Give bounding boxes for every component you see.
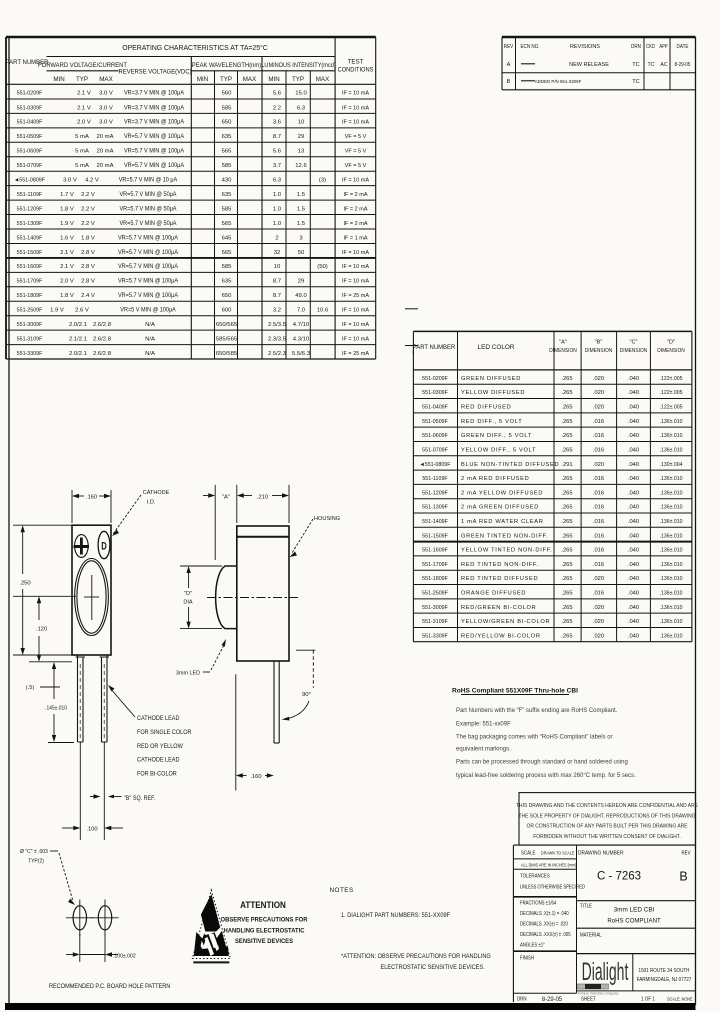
svg-text:12.6: 12.6 — [295, 163, 307, 169]
svg-text:IF = 10 mA: IF = 10 mA — [342, 322, 369, 328]
dim .210 — [288, 485, 290, 523]
svg-text:RED DIFF., 5 VOLT: RED DIFF., 5 VOLT — [461, 419, 522, 425]
svg-text:VR=5 V MIN @ 100μA: VR=5 V MIN @ 100μA — [120, 307, 176, 313]
centerline — [207, 597, 298, 599]
svg-text:565: 565 — [222, 149, 233, 155]
svg-text:20 mA: 20 mA — [96, 134, 113, 140]
svg-text:.265: .265 — [561, 576, 572, 582]
svg-text:585: 585 — [222, 206, 233, 212]
svg-text:.040: .040 — [628, 633, 639, 639]
svg-text:.265: .265 — [561, 562, 572, 568]
svg-text:IF = 10 mA: IF = 10 mA — [342, 336, 369, 342]
svg-text:TYP: TYP — [292, 76, 304, 83]
svg-text:equivalent markings.: equivalent markings. — [456, 745, 511, 752]
svg-text:.020: .020 — [593, 633, 604, 639]
svg-text:REVERSE VOLTAGE(VDC): REVERSE VOLTAGE(VDC) — [119, 69, 192, 75]
svg-text:.136±.010: .136±.010 — [660, 562, 683, 568]
svg-text:5.6: 5.6 — [273, 91, 282, 97]
svg-text:.100: .100 — [86, 827, 97, 833]
svg-text:"D": "D" — [184, 591, 192, 597]
svg-text:VR=5.7 V MIN @ 50μA: VR=5.7 V MIN @ 50μA — [120, 206, 177, 212]
svg-text:YELLOW/GREEN BI-COLOR: YELLOW/GREEN BI-COLOR — [461, 619, 550, 625]
svg-text:2.2: 2.2 — [273, 105, 281, 111]
front leads — [76, 656, 86, 658]
svg-text:551-3109F: 551-3109F — [422, 619, 448, 625]
svg-text:5.5/6.3: 5.5/6.3 — [292, 351, 311, 357]
svg-text:.265: .265 — [561, 476, 572, 482]
svg-text:◄551-0809F: ◄551-0809F — [420, 462, 452, 468]
svg-text:551-1709F: 551-1709F — [17, 279, 43, 285]
svg-text:FOR SINGLE COLOR: FOR SINGLE COLOR — [137, 730, 191, 736]
svg-text:49.0: 49.0 — [295, 293, 307, 299]
main table header lines — [47, 56, 336, 58]
svg-text:VR=5.7 V MIN @ 50μA: VR=5.7 V MIN @ 50μA — [120, 192, 177, 198]
svg-text:IF = 10 mA: IF = 10 mA — [342, 90, 369, 96]
svg-text:.265: .265 — [561, 548, 572, 554]
svg-text:.016: .016 — [593, 433, 604, 439]
svg-text:551-1409F: 551-1409F — [422, 519, 448, 525]
svg-text:RED TINTED DIFFUSED: RED TINTED DIFFUSED — [461, 576, 538, 582]
svg-text:DATE: DATE — [677, 44, 689, 50]
svg-text:.265: .265 — [561, 533, 572, 539]
svg-text:635: 635 — [222, 192, 233, 198]
svg-text:3mm LED CBI: 3mm LED CBI — [614, 907, 655, 914]
dim .160 side — [235, 674, 237, 790]
svg-text:YELLOW DIFF., 5 VOLT: YELLOW DIFF., 5 VOLT — [461, 447, 536, 453]
svg-text:.040: .040 — [628, 562, 639, 568]
svg-text:551-1209F: 551-1209F — [422, 490, 448, 496]
svg-text:◄551-0809F: ◄551-0809F — [14, 177, 46, 183]
svg-text:5 mA: 5 mA — [75, 134, 89, 140]
sheet left border — [8, 37, 10, 1005]
svg-text:MATERIAL: MATERIAL — [580, 932, 602, 938]
svg-text:2.8 V: 2.8 V — [81, 250, 95, 256]
svg-text:.040: .040 — [628, 505, 639, 511]
svg-text:SENSITIVE DEVICES: SENSITIVE DEVICES — [235, 938, 293, 945]
svg-text:2.0 V: 2.0 V — [60, 279, 74, 285]
svg-text:IF = 25 mA: IF = 25 mA — [342, 351, 369, 357]
title cell — [576, 845, 578, 993]
svg-text:RED TINTED NON-DIFF.: RED TINTED NON-DIFF. — [461, 562, 539, 568]
svg-text:2.6 V: 2.6 V — [75, 308, 89, 314]
svg-text:DIMENSION: DIMENSION — [657, 348, 685, 354]
svg-text:2.5/2.3: 2.5/2.3 — [268, 351, 287, 357]
svg-text:YELLOW DIFFUSED: YELLOW DIFFUSED — [461, 390, 525, 396]
svg-text:GREEN DIFF., 5 VOLT: GREEN DIFF., 5 VOLT — [461, 433, 532, 439]
svg-text:551-1709F: 551-1709F — [422, 562, 448, 568]
svg-text:2.6/2.8: 2.6/2.8 — [93, 336, 112, 342]
svg-text:VR=5.7 V MIN @ 100μA: VR=5.7 V MIN @ 100μA — [118, 278, 178, 284]
svg-text:.016: .016 — [593, 562, 604, 568]
svg-text:2.2 V: 2.2 V — [81, 192, 95, 198]
svg-text:13: 13 — [298, 149, 305, 155]
svg-text:DIMENSION: DIMENSION — [620, 348, 648, 354]
svg-text:.040: .040 — [628, 390, 639, 396]
dim .145 +- .010 — [53, 666, 55, 699]
svg-text:4.2 V: 4.2 V — [85, 178, 99, 184]
svg-text:DIMENSION: DIMENSION — [585, 348, 613, 354]
cathode mark D — [98, 531, 110, 558]
svg-text:585: 585 — [222, 163, 233, 169]
svg-text:.040: .040 — [628, 490, 639, 496]
svg-text:IF = 10 mA: IF = 10 mA — [342, 177, 369, 183]
svg-text:Ø "C" ± .003: Ø "C" ± .003 — [20, 849, 48, 855]
svg-text:3.0 V: 3.0 V — [99, 91, 113, 97]
svg-text:HANDLING ELECTROSTATIC: HANDLING ELECTROSTATIC — [224, 927, 305, 934]
svg-text:.136±.010: .136±.010 — [660, 519, 683, 525]
svg-text:D: D — [101, 540, 107, 553]
svg-text:TOLERANCES: TOLERANCES — [520, 873, 550, 879]
dim .100 +- .002 holes — [79, 934, 81, 962]
main table row lines — [6, 98, 376, 100]
svg-text:.016: .016 — [593, 505, 604, 511]
side view housing — [237, 526, 289, 661]
svg-text:650: 650 — [222, 293, 233, 299]
svg-text:5 mA: 5 mA — [75, 149, 89, 155]
svg-text:585: 585 — [222, 105, 233, 111]
svg-text:585: 585 — [222, 264, 233, 270]
svg-text:.160: .160 — [250, 774, 261, 780]
svg-text:GREEN DIFFUSED: GREEN DIFFUSED — [461, 376, 521, 382]
svg-text:10: 10 — [298, 120, 305, 126]
svg-text:MIN: MIN — [197, 76, 208, 83]
svg-text:.020: .020 — [593, 576, 604, 582]
svg-text:2.6/2.8: 2.6/2.8 — [93, 322, 112, 328]
svg-text:.040: .040 — [628, 476, 639, 482]
svg-text:1 mA RED WATER CLEAR: 1 mA RED WATER CLEAR — [461, 519, 544, 525]
svg-text:3.0 V: 3.0 V — [63, 178, 77, 184]
svg-text:2.2 V: 2.2 V — [81, 221, 95, 227]
svg-text:551-1109F: 551-1109F — [17, 192, 43, 198]
svg-text:CATHODE LEAD: CATHODE LEAD — [137, 716, 179, 722]
svg-text:3.6: 3.6 — [273, 120, 282, 126]
svg-text:3.0 V: 3.0 V — [99, 120, 113, 126]
svg-text:(50): (50) — [317, 264, 328, 270]
svg-text:VR=5.7 V MIN @ 100μA: VR=5.7 V MIN @ 100μA — [118, 264, 178, 270]
svg-text:551-0709F: 551-0709F — [422, 447, 448, 453]
svg-text:600: 600 — [222, 308, 233, 314]
svg-text:B: B — [507, 79, 511, 85]
svg-text:2.8 V: 2.8 V — [81, 264, 95, 270]
svg-text:VR=5.7 V MIN @ 10 μA: VR=5.7 V MIN @ 10 μA — [119, 177, 178, 183]
svg-text:4.7/10: 4.7/10 — [293, 322, 310, 328]
svg-text:.265: .265 — [561, 419, 572, 425]
svg-text:560: 560 — [222, 91, 233, 97]
svg-text:TEST: TEST — [348, 59, 364, 66]
svg-text:8.7: 8.7 — [273, 134, 281, 140]
svg-text:VF = 5 V: VF = 5 V — [345, 134, 367, 140]
svg-text:B: B — [679, 870, 687, 884]
svg-text:MAX: MAX — [316, 76, 329, 83]
svg-text:1.0: 1.0 — [273, 192, 282, 198]
svg-text:FARMINGDALE, NJ 07727: FARMINGDALE, NJ 07727 — [637, 977, 692, 983]
front view top dim .160 — [71, 490, 73, 523]
svg-text:Dialight: Dialight — [582, 959, 629, 986]
svg-text:SCALE: SCALE — [521, 850, 535, 856]
svg-text:6.3: 6.3 — [297, 105, 306, 111]
svg-text:›: › — [412, 351, 414, 357]
svg-text:Part Numbers with the “F” suff: Part Numbers with the “F” suffix ending … — [456, 707, 618, 714]
svg-text:GREEN TINTED NON-DIFF.: GREEN TINTED NON-DIFF. — [461, 533, 548, 539]
svg-text:.265: .265 — [561, 390, 572, 396]
svg-text:TYP(2): TYP(2) — [28, 858, 44, 864]
svg-text:N/A: N/A — [145, 336, 155, 342]
svg-text:10.6: 10.6 — [317, 308, 329, 314]
svg-text:.040: .040 — [628, 447, 639, 453]
svg-text:CATHODE LEAD: CATHODE LEAD — [137, 758, 179, 764]
svg-text:.020: .020 — [593, 376, 604, 382]
svg-text:(.5): (.5) — [26, 685, 35, 691]
svg-text:typical lead-free soldering pr: typical lead-free soldering process with… — [456, 772, 636, 779]
svg-text:RED/GREEN BI-COLOR: RED/GREEN BI-COLOR — [461, 605, 537, 611]
svg-text:"B" SQ. REF.: "B" SQ. REF. — [124, 796, 156, 802]
svg-text:551-3309F: 551-3309F — [17, 351, 43, 357]
svg-text:IF = 10 mA: IF = 10 mA — [342, 279, 369, 285]
svg-text:A: A — [507, 62, 511, 68]
svg-text:1 OF 1: 1 OF 1 — [641, 996, 655, 1002]
svg-text:551-0209F: 551-0209F — [17, 90, 43, 96]
svg-text:.040: .040 — [628, 548, 639, 554]
svg-text:IF = 25 mA: IF = 25 mA — [342, 293, 369, 299]
svg-text:OBSERVE PRECAUTIONS FOR: OBSERVE PRECAUTIONS FOR — [221, 916, 308, 923]
svg-text:.265: .265 — [561, 447, 572, 453]
svg-text:TYP: TYP — [220, 76, 232, 83]
svg-text:8.7: 8.7 — [273, 293, 281, 299]
svg-text:DIMENSION: DIMENSION — [549, 348, 577, 354]
svg-text:*ATTENTION: OBSERVE PRECAUTION: *ATTENTION: OBSERVE PRECAUTIONS FOR HAND… — [341, 954, 491, 960]
svg-text:RED OR YELLOW: RED OR YELLOW — [137, 744, 183, 750]
svg-text:.265: .265 — [561, 633, 572, 639]
svg-text:.265: .265 — [561, 376, 572, 382]
svg-text:2: 2 — [275, 235, 278, 241]
polarity mark + — [75, 535, 89, 558]
svg-text:.040: .040 — [628, 376, 639, 382]
svg-text:TC: TC — [648, 62, 655, 68]
svg-text:ATTENTION: ATTENTION — [240, 900, 286, 910]
svg-text:.136±.010: .136±.010 — [660, 619, 683, 625]
svg-text:DRAWN TO SCALE: DRAWN TO SCALE — [541, 850, 574, 856]
svg-text:.020: .020 — [593, 462, 604, 468]
svg-text:THIS DRAWING AND THE CONTENTS: THIS DRAWING AND THE CONTENTS HEREON ARE… — [516, 803, 698, 809]
svg-text:ANGLES ±1°: ANGLES ±1° — [520, 942, 545, 947]
svg-text:VR=5.7 V MIN @ 100μA: VR=5.7 V MIN @ 100μA — [118, 293, 178, 299]
svg-text:IF = 10 mA: IF = 10 mA — [342, 250, 369, 256]
svg-text:YELLOW TINTED NON-DIFF.: YELLOW TINTED NON-DIFF. — [461, 548, 553, 554]
front view housing — [72, 525, 111, 655]
svg-text:MAX: MAX — [243, 76, 256, 83]
part/color table rows — [413, 383, 692, 385]
svg-text:551-0409F: 551-0409F — [17, 120, 43, 126]
svg-text:.122±.005: .122±.005 — [660, 390, 683, 396]
svg-text:551-1409F: 551-1409F — [17, 235, 43, 241]
svg-text:CKD: CKD — [646, 44, 655, 50]
svg-text:1.8 V: 1.8 V — [81, 235, 95, 241]
svg-text:650/585: 650/585 — [216, 351, 238, 357]
svg-text:6.3: 6.3 — [273, 178, 282, 184]
svg-text:HOUSING: HOUSING — [314, 516, 341, 522]
svg-text:551-1809F: 551-1809F — [422, 576, 448, 582]
svg-text:2.3/3.5: 2.3/3.5 — [268, 336, 287, 342]
part/color table frame — [413, 330, 692, 332]
svg-text:565: 565 — [222, 221, 233, 227]
svg-text:TC: TC — [632, 62, 639, 68]
dim D dia — [180, 565, 222, 567]
svg-text:ECN NO.: ECN NO. — [520, 44, 539, 50]
svg-text:3.7: 3.7 — [273, 163, 281, 169]
svg-text:.016: .016 — [593, 548, 604, 554]
svg-text:8-29-05: 8-29-05 — [675, 62, 691, 68]
svg-text:2.0 V: 2.0 V — [77, 120, 91, 126]
dim .250 — [22, 528, 24, 574]
svg-text:.020: .020 — [593, 390, 604, 396]
svg-text:551-0609F: 551-0609F — [17, 148, 43, 154]
svg-text:551-1609F: 551-1609F — [422, 548, 448, 554]
svg-text:IF = 1 mA: IF = 1 mA — [344, 235, 368, 241]
svg-text:.265: .265 — [561, 619, 572, 625]
svg-text:3mm LED: 3mm LED — [176, 670, 200, 676]
svg-text:.265: .265 — [561, 490, 572, 496]
svg-text:.016: .016 — [593, 519, 604, 525]
svg-text:OPERATING CHARACTERISTICS AT T: OPERATING CHARACTERISTICS AT TA=25°C — [122, 44, 267, 52]
svg-text:ORANGE DIFFUSED: ORANGE DIFFUSED — [461, 591, 526, 597]
svg-text:.040: .040 — [628, 576, 639, 582]
svg-text:.136±.010: .136±.010 — [660, 590, 683, 596]
svg-text:AC: AC — [660, 62, 667, 68]
svg-text:.040: .040 — [628, 533, 639, 539]
svg-text:"B": "B" — [595, 340, 603, 346]
svg-text:.040: .040 — [628, 519, 639, 525]
svg-text:NOTES: NOTES — [330, 887, 354, 894]
svg-text:VF = 5 V: VF = 5 V — [345, 148, 367, 154]
svg-text:551-1309F: 551-1309F — [422, 505, 448, 511]
svg-text:551-0609F: 551-0609F — [422, 433, 448, 439]
svg-text:551-0309F: 551-0309F — [422, 390, 448, 396]
disclaimer box — [519, 793, 696, 845]
svg-text:.016: .016 — [593, 419, 604, 425]
svg-text:.265: .265 — [561, 433, 572, 439]
svg-text:.040: .040 — [628, 462, 639, 468]
svg-text:VR=5.7 V MIN @ 50μA: VR=5.7 V MIN @ 50μA — [120, 221, 177, 227]
svg-text:1501 ROUTE 34 SOUTH: 1501 ROUTE 34 SOUTH — [639, 968, 690, 974]
svg-text:IF = 10 mA: IF = 10 mA — [342, 264, 369, 270]
svg-text:DRAWING NUMBER: DRAWING NUMBER — [578, 850, 624, 856]
svg-text:29: 29 — [298, 134, 305, 140]
svg-text:10: 10 — [274, 264, 281, 270]
svg-text:FRACTIONS ±1/64: FRACTIONS ±1/64 — [520, 900, 557, 905]
svg-text:A Roper Industries Company: A Roper Industries Company — [578, 992, 619, 996]
revision table frame — [502, 36, 696, 38]
svg-text:.136±.010: .136±.010 — [660, 505, 683, 511]
svg-text:2 mA GREEN DIFFUSED: 2 mA GREEN DIFFUSED — [461, 505, 539, 511]
svg-text:.291: .291 — [561, 462, 572, 468]
svg-text:.040: .040 — [628, 619, 639, 625]
svg-text:2.0/2.1: 2.0/2.1 — [69, 351, 87, 357]
svg-text:2.4 V: 2.4 V — [81, 293, 95, 299]
svg-text:TITLE: TITLE — [580, 903, 592, 909]
svg-text:.122±.005: .122±.005 — [660, 404, 683, 410]
sheet bottom thick bar — [5, 1003, 696, 1010]
svg-text:2.1/2.1: 2.1/2.1 — [69, 336, 87, 342]
svg-text:PEAK WAVELENGTH(nm): PEAK WAVELENGTH(nm) — [192, 62, 261, 69]
svg-text:VF = 5 V: VF = 5 V — [345, 163, 367, 169]
svg-text:DECIMALS .X(±.1) = .040: DECIMALS .X(±.1) = .040 — [520, 911, 569, 916]
svg-text:.136±.010: .136±.010 — [660, 433, 683, 439]
svg-text:.250: .250 — [19, 581, 30, 587]
svg-text:.265: .265 — [561, 505, 572, 511]
svg-text:.100±.002: .100±.002 — [113, 953, 136, 959]
svg-text:90°: 90° — [302, 692, 311, 698]
svg-text:3.0 V: 3.0 V — [99, 105, 113, 111]
svg-text:IF = 2 mA: IF = 2 mA — [344, 206, 368, 212]
svg-text:551-0209F: 551-0209F — [422, 376, 448, 382]
svg-text:650: 650 — [222, 120, 233, 126]
svg-text:551-3009F: 551-3009F — [17, 322, 43, 328]
main table column lines — [190, 57, 192, 360]
svg-text:VR=5.7 V MIN @ 100μA: VR=5.7 V MIN @ 100μA — [124, 163, 184, 169]
svg-text:REV: REV — [504, 44, 514, 50]
svg-text:29: 29 — [298, 279, 305, 285]
svg-text:SCALE: NONE: SCALE: NONE — [667, 996, 693, 1002]
svg-text:VR=5.7 V MIN @ 100μA: VR=5.7 V MIN @ 100μA — [118, 235, 178, 241]
svg-text:.145±.010: .145±.010 — [45, 705, 67, 711]
svg-text:IF = 2 mA: IF = 2 mA — [344, 192, 368, 198]
svg-text:635: 635 — [222, 279, 233, 285]
svg-text:5 mA: 5 mA — [75, 163, 89, 169]
svg-text:FOR BI-COLOR: FOR BI-COLOR — [137, 771, 177, 777]
svg-text:RED/YELLOW BI-COLOR: RED/YELLOW BI-COLOR — [461, 633, 541, 639]
svg-text:551-0709F: 551-0709F — [17, 163, 43, 169]
svg-text:.136±.010: .136±.010 — [660, 605, 683, 611]
svg-text:BLUE NON-TINTED DIFFUSED: BLUE NON-TINTED DIFFUSED — [461, 462, 559, 468]
svg-text:4.3/10: 4.3/10 — [293, 336, 310, 342]
svg-text:I.D.: I.D. — [146, 500, 155, 506]
svg-text:.020: .020 — [593, 405, 604, 411]
svg-text:.136±.010: .136±.010 — [660, 447, 683, 453]
svg-text:2.1 V: 2.1 V — [60, 250, 74, 256]
dim .120 — [38, 599, 40, 620]
svg-text:565: 565 — [222, 250, 233, 256]
svg-text:551-1209F: 551-1209F — [17, 206, 43, 212]
svg-text:551-1309F: 551-1309F — [17, 221, 43, 227]
svg-text:.265: .265 — [561, 605, 572, 611]
svg-text:.136±.010: .136±.010 — [660, 633, 683, 639]
svg-text:UNLESS OTHERWISE SPECIFIED: UNLESS OTHERWISE SPECIFIED — [520, 884, 586, 889]
main table frame — [6, 36, 376, 38]
svg-text:.040: .040 — [628, 433, 639, 439]
svg-text:1.9 V: 1.9 V — [50, 308, 64, 314]
svg-text:1.7 V: 1.7 V — [60, 192, 74, 198]
svg-text:.265: .265 — [561, 405, 572, 411]
LED lens front — [75, 559, 109, 636]
svg-text:.122±.005: .122±.005 — [660, 376, 683, 382]
dim A — [214, 485, 216, 560]
svg-text:50: 50 — [298, 250, 305, 256]
svg-text:DRN: DRN — [631, 44, 641, 50]
svg-text:2.0/2.1: 2.0/2.1 — [69, 322, 87, 328]
sheet right border — [695, 37, 697, 1005]
hole pattern circles — [73, 906, 86, 930]
ESD warning triangle — [192, 890, 230, 959]
LED dome side — [216, 566, 237, 629]
svg-text:REV: REV — [681, 850, 691, 856]
svg-text:1.0: 1.0 — [273, 221, 282, 227]
svg-text:IF = 10 mA: IF = 10 mA — [342, 105, 369, 111]
svg-text:8.7: 8.7 — [273, 279, 281, 285]
svg-text:VR=3.7 V MIN @ 100μA: VR=3.7 V MIN @ 100μA — [124, 105, 184, 111]
svg-text:2.1 V: 2.1 V — [60, 264, 74, 270]
svg-text:20 mA: 20 mA — [96, 163, 113, 169]
svg-text:551-1509F: 551-1509F — [422, 533, 448, 539]
